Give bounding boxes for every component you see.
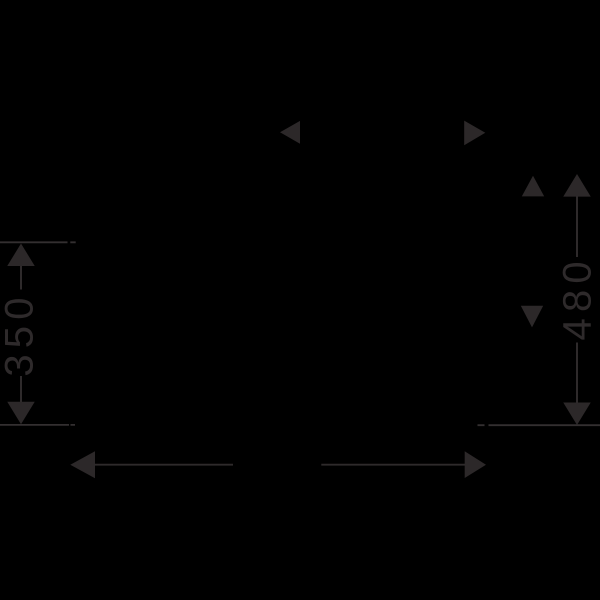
bottom dim: left arrowhead bbox=[70, 451, 95, 478]
top left-pointing arrowhead bbox=[280, 121, 300, 144]
bottom dim: right arrowhead bbox=[465, 451, 486, 478]
svg-text:480: 480 bbox=[556, 255, 600, 340]
svg-text:350: 350 bbox=[0, 291, 42, 376]
right dim 480: bottom extension line bbox=[478, 424, 600, 426]
left dim 350: dimension line lower segment bbox=[20, 376, 22, 402]
right dim 480: down arrowhead bbox=[563, 403, 591, 426]
left dim 350: bottom extension line bbox=[0, 424, 75, 426]
left dim 350: top extension line bbox=[0, 241, 76, 243]
right dim 480: dimension line upper segment bbox=[576, 196, 578, 257]
left dim 350: down arrowhead bbox=[7, 402, 35, 425]
left dim 350: up arrowhead bbox=[7, 244, 35, 267]
small down triangle bbox=[521, 306, 543, 328]
right dim 480: up arrowhead bbox=[563, 174, 591, 197]
bottom dim: line right segment bbox=[321, 464, 465, 466]
small up triangle bbox=[522, 176, 544, 197]
top right-pointing arrowhead bbox=[464, 121, 485, 146]
bottom dim: line left segment bbox=[94, 464, 233, 466]
right dim 480: dimension line lower segment bbox=[576, 343, 578, 404]
left dim 350: dimension line upper segment bbox=[20, 265, 22, 290]
